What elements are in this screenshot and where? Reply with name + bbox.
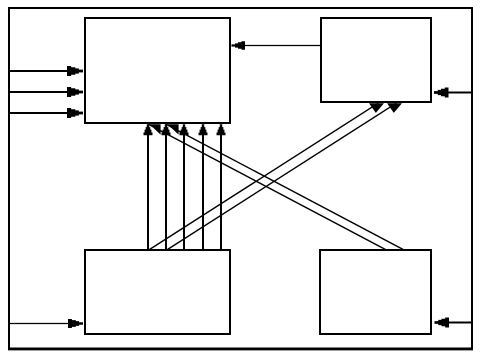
wire diagonal arrow 1 U4 to U1	[148, 124, 385, 249]
wire diagonal arrow 2 U3 to U2	[168, 103, 403, 249]
wire input arrow 3 into U1 left	[10, 108, 83, 118]
wire arrow U2 to U1	[232, 41, 322, 49]
block U1 top-left	[85, 18, 230, 123]
wire arrow from right border into U2	[434, 88, 471, 98]
wire vertical arrow 5 U3 to U1	[217, 124, 226, 249]
block U2 top-right	[321, 18, 431, 102]
wire arrow from left border into U3	[10, 319, 84, 328]
block U4 bottom-right	[320, 250, 431, 334]
block U3 bottom-left	[85, 250, 230, 334]
wire vertical arrow 2 U3 to U1	[162, 124, 171, 249]
outer border bottom edge (thicker)	[8, 348, 473, 350]
wire input arrow 1 into U1 left	[10, 66, 83, 76]
wire diagonal arrow 1 U3 to U2	[150, 103, 385, 249]
wire diagonal arrow 2 U4 to U1	[166, 124, 403, 249]
wire vertical arrow 3 U3 to U1	[180, 124, 189, 249]
wire input arrow 2 into U1 left	[10, 87, 83, 97]
wire arrow from right border into U4	[435, 318, 472, 328]
wire vertical arrow 4 U3 to U1	[199, 124, 208, 249]
wire vertical arrow 1 U3 to U1	[144, 124, 153, 249]
